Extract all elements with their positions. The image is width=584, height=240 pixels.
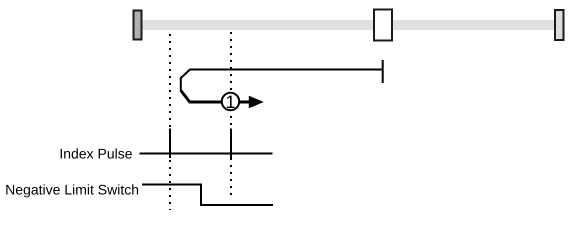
arrow shaft: [239, 101, 250, 104]
arrow head: [249, 96, 264, 109]
label Negative Limit Switch: [6, 184, 138, 197]
homing method circle 1: [222, 93, 239, 110]
left dotted reference line: [169, 34, 171, 210]
rail: [142, 20, 560, 30]
motion start tick: [382, 60, 384, 83]
motion path leftward (thin): [181, 70, 383, 92]
index pulse spike right: [230, 129, 232, 159]
right end stop block: [555, 10, 564, 40]
digit 1: [227, 96, 235, 108]
left end stop block: [134, 11, 142, 40]
index pulse spike left: [169, 129, 171, 159]
right dotted reference line: [230, 32, 232, 199]
index pulse baseline: [140, 153, 273, 155]
negative limit switch signal: [142, 185, 273, 206]
label Index Pulse: [61, 148, 132, 158]
home/index block (white): [374, 10, 392, 41]
motion path return rightward (thick): [181, 91, 222, 103]
